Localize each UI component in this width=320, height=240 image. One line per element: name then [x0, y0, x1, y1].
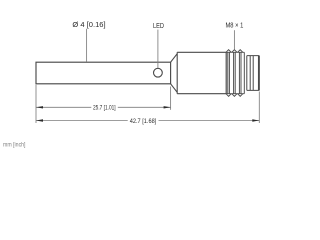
dimension arrows 25.7 — [36, 106, 171, 108]
leader line M8 — [233, 30, 235, 49]
svg-text:LED: LED — [153, 21, 164, 30]
leader line LED — [157, 30, 159, 68]
dimension arrows 42.7 — [36, 119, 259, 121]
svg-text:M8 × 1: M8 × 1 — [226, 21, 244, 30]
housing barrel (Ø8) — [177, 52, 226, 93]
extension line mid (taper start) — [170, 87, 172, 110]
dimension line 25.7 — [36, 106, 171, 108]
extension line left — [35, 85, 37, 123]
svg-text:42.7 [1.68]: 42.7 [1.68] — [130, 118, 157, 125]
svg-text:mm [inch]: mm [inch] — [3, 142, 26, 149]
leader line Ø4 — [86, 29, 88, 62]
dimension line 42.7 — [36, 120, 259, 122]
connector end face — [258, 56, 260, 91]
svg-text:25.7 [1.01]: 25.7 [1.01] — [93, 105, 116, 112]
LED hole — [154, 68, 163, 77]
extension line right (housing end) — [258, 92, 260, 124]
connector coupling — [247, 56, 259, 91]
sensor tube body (Ø4 barrel) — [36, 62, 171, 84]
M8 thread section — [226, 50, 244, 97]
svg-text:Ø 4 [0.16]: Ø 4 [0.16] — [72, 20, 105, 29]
taper cone to housing — [171, 52, 178, 93]
